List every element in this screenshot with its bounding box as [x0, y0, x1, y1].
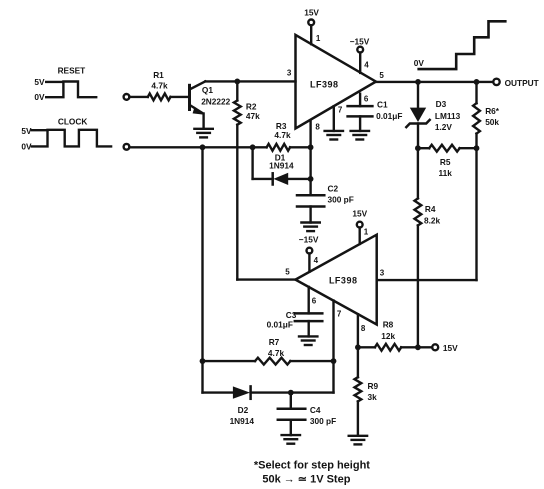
- R3 value label: [274, 121, 291, 140]
- U1 pin 6 number: [364, 94, 369, 103]
- resistor R4: [415, 198, 422, 225]
- svg-text:5V: 5V: [21, 126, 32, 136]
- svg-text:4.7k: 4.7k: [268, 348, 285, 358]
- wire node to R9: [357, 347, 359, 377]
- svg-text:4.7k: 4.7k: [151, 81, 168, 91]
- -15V label (U1 pin 4): [350, 36, 370, 69]
- svg-text:1: 1: [364, 228, 369, 237]
- wire D1 branch down: [251, 147, 253, 179]
- svg-text:50k: 50k: [485, 117, 499, 127]
- ground (C1): [351, 131, 369, 140]
- C2 value label: [328, 184, 354, 205]
- svg-text:D2: D2: [238, 405, 249, 415]
- wire U1 pin 7 to ground: [333, 106, 335, 131]
- C4 value label: [310, 405, 336, 426]
- svg-text:0V: 0V: [21, 141, 32, 151]
- svg-text:1N914: 1N914: [230, 416, 255, 426]
- svg-text:50k → ≃ 1V Step: 50k → ≃ 1V Step: [262, 474, 350, 486]
- wire output node to R6: [475, 82, 477, 103]
- wire R7 to pin7 line: [290, 360, 333, 362]
- diode D2 (1N914, cathode right): [233, 386, 251, 398]
- svg-text:8: 8: [315, 122, 320, 131]
- svg-text:300 pF: 300 pF: [328, 195, 354, 205]
- svg-text:R4: R4: [425, 204, 436, 214]
- wire node to 15V terminal: [418, 346, 432, 348]
- OUTPUT label: [505, 78, 539, 88]
- svg-text:8.2k: 8.2k: [424, 216, 441, 226]
- wire U1 output to OUTPUT terminal: [376, 81, 493, 83]
- svg-text:*Select for step height: *Select for step height: [254, 460, 370, 472]
- wire R5 node down right loop: [475, 148, 477, 280]
- 15V terminal: [432, 344, 438, 350]
- U2 name label: [329, 275, 358, 285]
- node D1/C2 junction: [308, 176, 314, 182]
- capacitor C1: [348, 106, 373, 116]
- 0V label (staircase): [414, 58, 425, 68]
- svg-text:47k: 47k: [246, 111, 260, 121]
- svg-text:R8: R8: [383, 320, 394, 330]
- wire U2 pin 6: [308, 287, 310, 314]
- svg-text:1N914: 1N914: [269, 161, 294, 171]
- diode D1 (1N914, cathode left): [273, 173, 289, 185]
- wire node to R7: [203, 360, 256, 362]
- svg-text:0V: 0V: [34, 92, 45, 102]
- CLOCK pulse waveform: [32, 130, 111, 147]
- U2 pin 4 supply -15V: [307, 248, 313, 272]
- wire reset terminal to R1: [129, 96, 147, 98]
- node D3/R5/R4: [415, 145, 421, 151]
- svg-text:5: 5: [379, 71, 384, 80]
- wire R4 down to 15V rail: [417, 225, 419, 347]
- svg-text:3: 3: [380, 268, 385, 277]
- U1 pin 3 number: [287, 69, 292, 78]
- D2 designator label: [230, 405, 255, 426]
- D3 designator label: [435, 99, 461, 132]
- svg-text:C3: C3: [286, 310, 297, 320]
- resistor R6: [473, 103, 480, 133]
- ground (U1 pin 7): [325, 131, 343, 140]
- wire U2 pin 7 down to D2 line: [332, 301, 334, 393]
- svg-text:0.01μF: 0.01μF: [376, 111, 402, 121]
- RESET waveform label: [34, 66, 85, 102]
- wire C3 to ground: [308, 321, 310, 336]
- ground (C3): [299, 336, 317, 345]
- R8 value label: [381, 320, 395, 341]
- ground (C4): [282, 435, 300, 444]
- op-amp U2 (LF398 #2): [295, 235, 376, 325]
- svg-text:C2: C2: [328, 184, 339, 194]
- resistor R8: [375, 344, 401, 351]
- svg-text:5V: 5V: [34, 77, 45, 87]
- wire node to R8: [358, 346, 375, 348]
- svg-text:6: 6: [312, 296, 317, 305]
- R4 value label: [424, 204, 441, 226]
- ground (R9): [349, 436, 367, 445]
- wire C2 to ground: [309, 207, 311, 223]
- svg-text:D3: D3: [436, 99, 447, 109]
- U2 pin 6 number: [312, 296, 317, 305]
- node clock / D2-R7 branch: [200, 144, 206, 150]
- capacitor C4: [278, 409, 306, 420]
- capacitor C2: [297, 195, 324, 206]
- node R7 right / pin7 line: [331, 358, 337, 364]
- resistor R1: [148, 94, 171, 101]
- wire Q1 collector to U1 pin 3: [205, 80, 295, 82]
- U1 pin 8 number: [315, 122, 320, 131]
- resistor R3: [267, 144, 291, 151]
- staircase output waveform: [419, 21, 506, 69]
- U2 pin 3 number: [380, 268, 385, 277]
- svg-text:R5: R5: [440, 157, 451, 167]
- svg-text:C4: C4: [310, 405, 321, 415]
- wire node to C2: [309, 179, 311, 195]
- wire R3 to pin8 node: [290, 146, 311, 148]
- capacitor C3: [295, 313, 323, 321]
- ground (Q1 emitter): [194, 129, 212, 138]
- U1 pin 5 number: [379, 71, 384, 80]
- svg-text:3: 3: [287, 69, 292, 78]
- svg-text:R1: R1: [153, 70, 164, 80]
- svg-text:15V: 15V: [352, 209, 367, 219]
- ground (C2): [301, 223, 319, 232]
- svg-text:R7: R7: [269, 337, 280, 347]
- R6 value label: [485, 106, 500, 127]
- RESET 5V reference line: [46, 81, 62, 83]
- C1 value label: [376, 100, 402, 121]
- wire D2 to pin7 line: [251, 391, 334, 393]
- U2 pin 7 number: [337, 310, 342, 319]
- svg-text:12k: 12k: [381, 331, 395, 341]
- U1 pin 4 supply -15V: [357, 47, 363, 73]
- U2 pin 1 supply 15V: [357, 222, 363, 244]
- svg-text:RESET: RESET: [58, 66, 86, 76]
- svg-text:8: 8: [361, 324, 366, 333]
- svg-text:7: 7: [338, 105, 343, 114]
- U1 name label: [310, 79, 339, 89]
- R1 value label: [151, 70, 168, 91]
- svg-text:Q1: Q1: [202, 85, 213, 95]
- svg-text:OUTPUT: OUTPUT: [505, 78, 539, 88]
- wire D1 to node: [288, 178, 310, 180]
- wire R9 to ground: [357, 401, 359, 435]
- U2 pin 5 number: [285, 268, 290, 277]
- svg-text:C1: C1: [377, 100, 388, 110]
- resistor R7: [255, 358, 290, 365]
- R7 value label: [268, 337, 285, 358]
- CLOCK input terminal: [124, 144, 130, 150]
- wire node to R4: [417, 148, 419, 198]
- svg-text:4.7k: 4.7k: [274, 130, 291, 140]
- RESET input terminal: [124, 94, 130, 100]
- node D2 line / C4: [288, 390, 294, 396]
- wire R6 to R5 node: [475, 134, 477, 149]
- svg-text:15V: 15V: [304, 8, 319, 18]
- 15V label (U1 pin 1): [304, 8, 321, 43]
- op-amp U1 (LF398 #1): [296, 35, 376, 129]
- node collector/R2 junction: [234, 79, 240, 85]
- svg-text:2N2222: 2N2222: [201, 97, 230, 107]
- wire U2 output (pin 5) horizontal: [237, 278, 295, 280]
- svg-text:4: 4: [314, 256, 319, 265]
- R5 value label: [439, 157, 453, 178]
- RESET pulse waveform: [46, 82, 96, 98]
- svg-text:−15V: −15V: [299, 235, 319, 245]
- U1 pin 1 supply 15V: [308, 20, 314, 45]
- wire clock rail: [129, 146, 266, 148]
- CLOCK 5V reference line: [32, 129, 48, 131]
- svg-text:7: 7: [337, 310, 342, 319]
- node R8/R4/15V: [415, 344, 421, 350]
- wire node to R5: [418, 147, 429, 149]
- wire left vertical clock to D2: [201, 147, 203, 392]
- wire C4 to ground: [290, 420, 292, 435]
- U1 pin 7 number: [338, 105, 343, 114]
- resistor R9: [355, 377, 362, 401]
- wire to D1 anode... cathode side: [253, 178, 273, 180]
- svg-text:R6*: R6*: [485, 106, 500, 116]
- svg-text:300 pF: 300 pF: [310, 416, 336, 426]
- svg-text:6: 6: [364, 94, 369, 103]
- CLOCK waveform label: [21, 117, 87, 152]
- wire D2 line left segment: [203, 391, 233, 393]
- wire U2 pin 8: [357, 314, 359, 347]
- svg-text:0V: 0V: [414, 58, 425, 68]
- resistor R2: [234, 101, 241, 125]
- svg-text:−15V: −15V: [350, 36, 370, 46]
- node output/R6: [474, 79, 480, 85]
- wire pin8 node down to D1/C2 node: [309, 147, 311, 179]
- 15V label (right rail): [443, 343, 458, 353]
- svg-text:11k: 11k: [439, 168, 453, 178]
- wire node to C4: [290, 393, 292, 409]
- svg-text:CLOCK: CLOCK: [58, 117, 88, 127]
- transistor Q1: [190, 81, 206, 128]
- R9 value label: [368, 381, 379, 402]
- svg-text:LF398: LF398: [329, 275, 358, 285]
- svg-text:5: 5: [285, 268, 290, 277]
- svg-text:3k: 3k: [368, 392, 378, 402]
- svg-text:LF398: LF398: [310, 79, 339, 89]
- resistor R5: [429, 145, 459, 152]
- OUTPUT terminal: [493, 79, 499, 85]
- svg-text:15V: 15V: [443, 343, 458, 353]
- -15V label (U2 pin 4): [299, 235, 319, 265]
- svg-text:0.01μF: 0.01μF: [267, 319, 293, 329]
- svg-text:1: 1: [316, 34, 321, 43]
- D1 designator label: [269, 152, 294, 170]
- svg-text:1.2V: 1.2V: [435, 122, 453, 132]
- wire U1 pin 6: [359, 94, 361, 106]
- 15V label (U2 pin 1): [352, 209, 368, 237]
- footnote text: [254, 460, 370, 486]
- wire R1 to Q1 base: [171, 96, 189, 98]
- svg-text:R9: R9: [368, 381, 379, 391]
- node pin8/R8/R9: [355, 344, 361, 350]
- node R3/pin8/C2 junction: [308, 144, 314, 150]
- wire R2 down to U2 output: [236, 125, 238, 280]
- R2 value label: [246, 102, 260, 121]
- wire C1 to ground: [359, 116, 361, 130]
- node clock / D1 branch: [250, 144, 256, 150]
- wire R5 to node: [460, 147, 477, 149]
- node R7 left / D2 vertical: [200, 358, 206, 364]
- U2 pin 8 number: [361, 324, 366, 333]
- node R5/R6: [474, 145, 480, 151]
- diode D3 (LM113): [406, 82, 429, 148]
- Q1 designator label: [201, 85, 230, 107]
- C3 value label: [267, 310, 297, 330]
- svg-text:4: 4: [364, 61, 369, 70]
- wire right loop to U2 pin 3: [377, 279, 477, 281]
- node output/D3: [415, 79, 421, 85]
- wire node to R2: [236, 81, 238, 100]
- svg-text:LM113: LM113: [435, 111, 461, 121]
- wire R8 to R4 node: [401, 346, 418, 348]
- wire U1 pin 8: [309, 120, 311, 147]
